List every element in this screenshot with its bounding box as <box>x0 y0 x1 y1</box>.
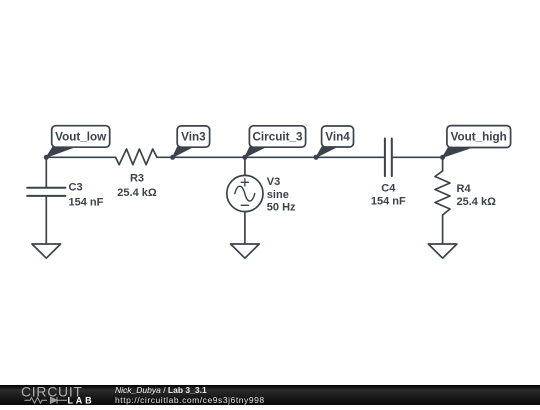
ground (below V3) <box>231 244 260 258</box>
svg-text:Vout_high: Vout_high <box>451 131 507 144</box>
wire R4 top lead <box>442 157 444 171</box>
CircuitLab logo resistor-diode squiggle <box>25 397 68 404</box>
ground (below C3) <box>32 244 61 258</box>
svg-text:25.4 kΩ: 25.4 kΩ <box>117 187 157 199</box>
svg-text:Circuit_3: Circuit_3 <box>252 131 303 144</box>
ground (below R4) <box>428 244 457 258</box>
wire main horizontal middle (R3 to C4) <box>157 156 384 158</box>
node Circuit_3 <box>242 155 247 160</box>
wire V3 top lead <box>244 157 246 175</box>
wire V3 bottom lead <box>244 212 246 244</box>
svg-text:25.4 kΩ: 25.4 kΩ <box>457 196 497 208</box>
net flag Vin4 <box>316 126 353 157</box>
capacitor C3 <box>27 188 65 196</box>
node Vout_high <box>440 155 445 160</box>
wire R4 bottom lead <box>442 215 444 244</box>
net flag Vin3 <box>173 126 210 157</box>
svg-text:LAB: LAB <box>68 395 95 405</box>
voltage source V3 <box>227 175 263 211</box>
net flag Circuit_3 <box>245 126 306 158</box>
resistor R3 <box>116 149 157 165</box>
svg-text:Vout_low: Vout_low <box>55 131 107 144</box>
node Vin4 <box>314 155 319 160</box>
net flag Vout_low <box>46 126 109 158</box>
svg-text:V3: V3 <box>267 176 280 188</box>
node Vin3 <box>170 155 175 160</box>
svg-text:154 nF: 154 nF <box>371 196 406 208</box>
wire main horizontal right (C4 to Vout_high node) <box>392 156 442 158</box>
svg-text:R3: R3 <box>130 172 144 184</box>
node Vout_low <box>44 155 49 160</box>
wire C3 top lead <box>45 157 47 187</box>
svg-text:154 nF: 154 nF <box>69 196 104 208</box>
wire C3 bottom lead <box>45 197 47 244</box>
net flag Vout_high <box>443 126 511 158</box>
svg-text:50 Hz: 50 Hz <box>267 202 296 214</box>
svg-text:http://circuitlab.com/ce9s3j6t: http://circuitlab.com/ce9s3j6tny998 <box>115 395 265 405</box>
svg-text:R4: R4 <box>457 183 472 195</box>
svg-text:Vin4: Vin4 <box>325 131 350 144</box>
svg-text:C3: C3 <box>69 182 83 194</box>
resistor R4 <box>435 171 450 215</box>
footer bar <box>0 385 540 405</box>
capacitor C4 <box>385 139 392 177</box>
svg-text:Vin3: Vin3 <box>181 131 206 144</box>
svg-text:Nick_Dubya / Lab 3_3.1: Nick_Dubya / Lab 3_3.1 <box>115 385 207 395</box>
wire main horizontal left (Vout_low node to R3) <box>46 156 115 158</box>
svg-text:C4: C4 <box>381 183 396 195</box>
svg-text:sine: sine <box>267 189 289 201</box>
